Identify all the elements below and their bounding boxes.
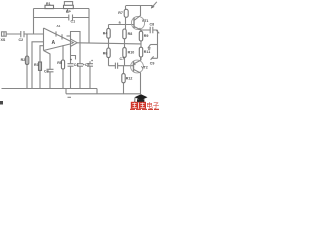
svg-text:XS: XS xyxy=(1,38,6,42)
svg-text:R12: R12 xyxy=(126,76,133,80)
svg-text:R7: R7 xyxy=(118,11,123,15)
svg-text:C8: C8 xyxy=(150,23,155,27)
svg-text:+C5: +C5 xyxy=(83,63,90,67)
svg-text:A1: A1 xyxy=(57,24,61,28)
svg-text:R2: R2 xyxy=(21,58,26,62)
svg-text:VT1: VT1 xyxy=(142,19,149,23)
svg-text:R8: R8 xyxy=(128,32,133,36)
svg-text:A: A xyxy=(52,40,56,46)
svg-text:R5: R5 xyxy=(57,61,62,65)
svg-text:R4: R4 xyxy=(103,32,108,36)
svg-text:R3: R3 xyxy=(34,63,39,67)
svg-text:R10: R10 xyxy=(128,50,135,54)
svg-text:+: + xyxy=(70,58,72,62)
svg-text:C4: C4 xyxy=(74,63,79,67)
svg-text:C7: C7 xyxy=(120,57,125,61)
svg-text:+: + xyxy=(91,59,93,63)
svg-text:R11: R11 xyxy=(144,50,150,54)
svg-text:VT2: VT2 xyxy=(141,65,148,69)
svg-text:电子: 电子 xyxy=(146,101,160,110)
svg-text:R9: R9 xyxy=(144,34,149,38)
svg-text:C3: C3 xyxy=(44,70,49,74)
svg-text:C9: C9 xyxy=(150,62,155,66)
svg-text:R1: R1 xyxy=(46,2,51,6)
svg-text:C2: C2 xyxy=(19,38,24,42)
svg-text:R6: R6 xyxy=(103,51,108,55)
svg-text:RP: RP xyxy=(66,10,72,14)
svg-text:C1: C1 xyxy=(71,20,76,24)
